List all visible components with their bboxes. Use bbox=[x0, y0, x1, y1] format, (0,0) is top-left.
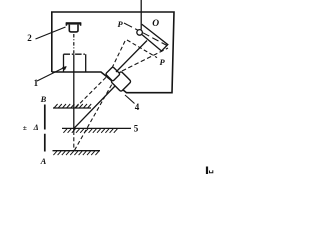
svg-text:Δ: Δ bbox=[33, 123, 39, 132]
svg-text:A: A bbox=[40, 156, 47, 166]
svg-text:1: 1 bbox=[34, 78, 39, 88]
svg-text:5: 5 bbox=[134, 123, 139, 133]
svg-text:P: P bbox=[160, 57, 166, 67]
svg-text:±: ± bbox=[23, 123, 27, 132]
svg-text:B: B bbox=[40, 94, 47, 104]
svg-text:4: 4 bbox=[135, 102, 140, 112]
svg-text:O: O bbox=[152, 19, 159, 29]
svg-text:P: P bbox=[118, 19, 124, 29]
svg-text:2: 2 bbox=[27, 33, 32, 43]
